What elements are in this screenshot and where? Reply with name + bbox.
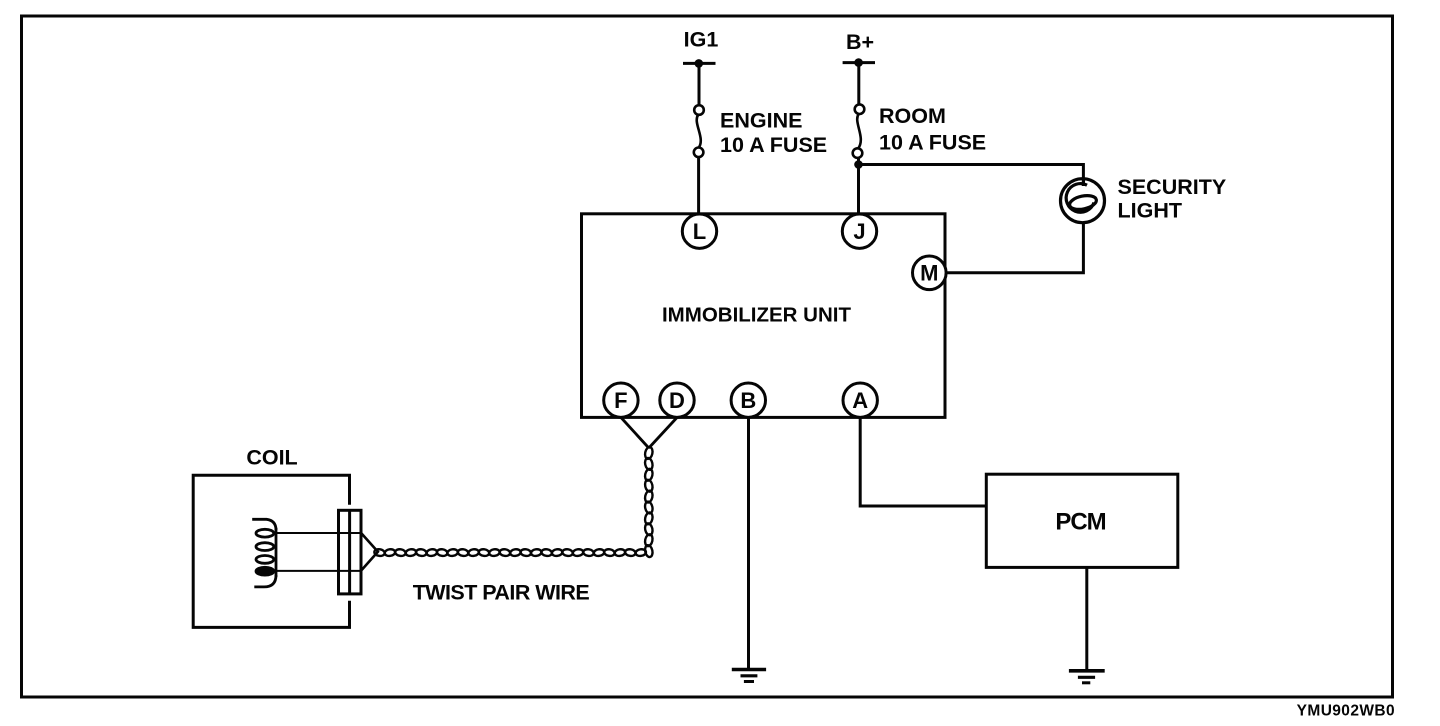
- wire pin B to ground: [747, 418, 750, 669]
- junction node below ROOM fuse: [854, 160, 863, 169]
- immobilizer unit U1 box: [582, 214, 946, 418]
- inductor (coil winding): [252, 519, 276, 587]
- svg-text:F: F: [614, 388, 627, 413]
- fuse ENGINE 10 A: [694, 105, 704, 157]
- svg-text:M: M: [920, 261, 938, 286]
- svg-text:PCM: PCM: [1055, 508, 1105, 535]
- svg-text:B: B: [740, 388, 756, 413]
- wire pin F to twist pair apex: [621, 418, 649, 449]
- node B+ terminal: [843, 58, 875, 67]
- svg-text:ROOM: ROOM: [879, 104, 946, 128]
- lamp SECURITY LIGHT: [1061, 179, 1105, 223]
- wire twisted pair horizontal run: [374, 549, 647, 557]
- svg-text:D: D: [669, 388, 685, 413]
- wire pin A to PCM: [860, 418, 986, 507]
- wire coil to connector (bottom): [273, 570, 361, 572]
- fuse ROOM 10 A: [853, 104, 865, 158]
- svg-text:B+: B+: [846, 30, 874, 54]
- svg-text:10 A FUSE: 10 A FUSE: [720, 133, 827, 157]
- wire junction to pin J: [857, 158, 860, 215]
- svg-text:YMU902WB0: YMU902WB0: [1297, 702, 1395, 719]
- node IG1 terminal: [683, 59, 716, 68]
- svg-text:IG1: IG1: [684, 28, 719, 52]
- wire lamp to pin M: [947, 223, 1083, 273]
- pin M: [913, 256, 947, 290]
- coil box: [193, 475, 349, 627]
- connector at coil: [339, 510, 362, 594]
- svg-text:TWIST PAIR WIRE: TWIST PAIR WIRE: [413, 581, 590, 605]
- twisted pair funnel at connector: [361, 533, 378, 571]
- wire B+ to fuse: [857, 63, 860, 105]
- svg-text:J: J: [853, 219, 865, 244]
- pin L: [682, 214, 716, 248]
- wire PCM to ground: [1085, 567, 1088, 669]
- pin F: [604, 383, 638, 417]
- wire coil to connector (top): [273, 532, 361, 534]
- pin A: [843, 383, 877, 417]
- wire pin D to twist pair apex: [649, 418, 677, 449]
- wire twisted pair vertical run: [644, 446, 654, 557]
- svg-text:LIGHT: LIGHT: [1118, 198, 1183, 222]
- svg-text:COIL: COIL: [246, 445, 297, 469]
- wire junction to security light: [859, 165, 1084, 180]
- wire fuse to pin L: [697, 157, 700, 215]
- svg-text:SECURITY: SECURITY: [1118, 175, 1227, 199]
- pin J: [842, 214, 876, 248]
- svg-text:L: L: [693, 219, 706, 244]
- svg-text:ENGINE: ENGINE: [720, 108, 802, 132]
- ground (PCM): [1069, 671, 1105, 683]
- svg-text:IMMOBILIZER UNIT: IMMOBILIZER UNIT: [662, 303, 852, 326]
- wire IG1 to fuse: [698, 63, 701, 105]
- svg-text:10 A FUSE: 10 A FUSE: [879, 130, 986, 154]
- pin D: [660, 383, 694, 417]
- pin B: [731, 383, 765, 417]
- svg-text:A: A: [852, 388, 868, 413]
- PCM box: [986, 474, 1178, 567]
- ground (immobilizer unit): [732, 670, 766, 682]
